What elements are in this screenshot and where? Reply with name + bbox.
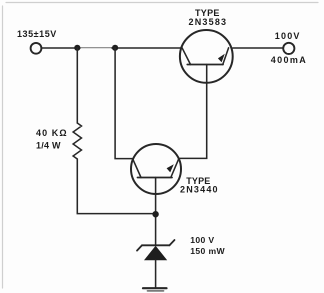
svg-text:1/4 W: 1/4 W — [36, 140, 61, 150]
wire output — [233, 47, 283, 49]
wire resistor bottom — [77, 159, 155, 214]
wire Q1 base to Q2 emitter — [180, 65, 207, 159]
wire resistor top — [76, 48, 78, 123]
svg-text:2N3440: 2N3440 — [180, 185, 219, 195]
ground — [143, 288, 167, 291]
svg-text:135±15V: 135±15V — [17, 29, 57, 39]
transistor Q1 2N3583 — [180, 30, 233, 83]
resistor R1 40kΩ — [73, 123, 81, 159]
svg-text:2N3583: 2N3583 — [189, 17, 228, 27]
wire zener to ground — [155, 260, 157, 287]
svg-text:100 V: 100 V — [190, 235, 214, 245]
svg-text:100V: 100V — [275, 31, 301, 41]
zener diode D1 — [137, 240, 175, 260]
scan edge artifact top — [6, 2, 318, 4]
wire rail segment to Q1 — [112, 47, 182, 49]
wire Q2 base — [155, 178, 157, 246]
svg-text:40 KΩ: 40 KΩ — [36, 128, 68, 138]
node junction A — [74, 45, 80, 51]
input terminal — [31, 43, 42, 54]
svg-text:150 mW: 150 mW — [190, 246, 225, 256]
node junction B — [112, 45, 118, 51]
scan edge artifact left — [2, 6, 4, 288]
svg-text:400mA: 400mA — [271, 55, 308, 65]
wire Q2 collector — [115, 48, 132, 159]
transistor Q2 2N3440 — [131, 144, 181, 194]
wire rail faint segment — [79, 47, 113, 49]
output terminal — [283, 43, 294, 54]
node junction C — [152, 211, 158, 217]
wire input rail — [42, 47, 81, 49]
